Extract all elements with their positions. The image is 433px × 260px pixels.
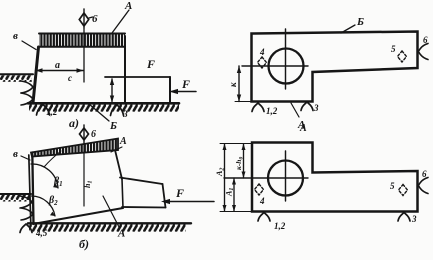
ground (b) xyxy=(28,223,191,231)
step height dimension (a) xyxy=(110,78,114,103)
svg-text:6: 6 xyxy=(422,169,427,179)
centerline (a) xyxy=(83,28,85,82)
svg-text:А1: А1 xyxy=(225,188,236,197)
datum label A bottom (b) xyxy=(103,196,125,240)
block body (a) xyxy=(33,36,125,103)
support point 6 right edge (bottom right) xyxy=(418,169,428,194)
dimension a xyxy=(36,60,84,83)
dimension k-h0 (bottom right) xyxy=(234,144,246,179)
step lug (a) xyxy=(105,77,170,103)
svg-text:β1: β1 xyxy=(53,176,63,188)
clamp point symbol upper left face (a) xyxy=(21,81,33,93)
left wall support (b) xyxy=(0,194,31,202)
support point 3 (a) xyxy=(111,105,129,120)
knurled clamp band (a) xyxy=(39,34,125,47)
force F arrow (a) xyxy=(169,77,196,94)
hole circle (bottom right) xyxy=(268,161,303,196)
svg-text:4,5: 4,5 xyxy=(35,228,48,238)
ground (a) xyxy=(28,103,179,111)
svg-text:5: 5 xyxy=(391,44,396,54)
support point 1,2 (top right) xyxy=(252,103,278,116)
tilted block body (b) xyxy=(29,150,123,224)
svg-text:F: F xyxy=(175,186,184,200)
svg-text:б): б) xyxy=(79,237,89,251)
svg-text:1,2: 1,2 xyxy=(46,107,58,117)
clamp point symbol upper left face (b) xyxy=(20,196,32,208)
svg-text:А2: А2 xyxy=(215,168,226,177)
datum leader Б (a) xyxy=(89,104,117,132)
clamp diamond 4 (bottom right) xyxy=(255,184,266,206)
support point 4,5 (b) xyxy=(20,224,48,238)
clamp diamond 4 (top right) xyxy=(258,47,267,68)
centerline (b) xyxy=(83,145,85,206)
svg-text:Б: Б xyxy=(356,16,364,28)
crosshair (top right) xyxy=(242,29,308,89)
datum label в (b) xyxy=(13,148,30,160)
svg-text:4: 4 xyxy=(259,47,265,57)
clamp diamond 6 (b) xyxy=(80,125,97,143)
datum label Б (top right) xyxy=(341,16,364,33)
svg-text:β2: β2 xyxy=(48,195,58,207)
svg-text:5: 5 xyxy=(390,181,395,191)
svg-text:c: c xyxy=(68,73,72,83)
svg-text:A: A xyxy=(117,228,125,240)
datum label A top (b) xyxy=(111,136,127,152)
svg-text:6: 6 xyxy=(423,35,428,45)
svg-text:1,2: 1,2 xyxy=(274,221,286,231)
plate outline (bottom right) xyxy=(252,143,418,212)
clamp point symbol lower left face (b) xyxy=(21,208,33,220)
svg-text:Б: Б xyxy=(109,120,117,132)
dimension extension lines (bottom right) xyxy=(220,144,252,212)
svg-text:3: 3 xyxy=(122,110,128,120)
clamp point symbol lower left face (a) xyxy=(21,93,33,105)
angle arc beta1 (b) xyxy=(31,164,63,188)
support point 1,2 (bottom right) xyxy=(258,213,286,232)
svg-text:6: 6 xyxy=(91,129,96,140)
svg-text:6: 6 xyxy=(92,13,98,25)
crosshair (bottom right) xyxy=(224,151,308,201)
clamp diamond 5 (top right) xyxy=(391,44,407,62)
svg-text:3: 3 xyxy=(313,103,319,113)
svg-text:к-h0: к-h0 xyxy=(234,157,245,170)
svg-text:в: в xyxy=(13,30,18,42)
support point 1,2 (a) xyxy=(37,105,58,118)
svg-text:4: 4 xyxy=(259,196,265,206)
support point 3 (bottom right) xyxy=(398,213,417,225)
svg-text:1,2: 1,2 xyxy=(266,106,278,116)
dimension A1 (bottom right) xyxy=(225,178,237,212)
svg-text:в: в xyxy=(13,148,18,160)
dimension A2 (bottom right) xyxy=(215,144,227,212)
dimension k (top right) xyxy=(228,66,251,102)
svg-text:а): а) xyxy=(69,116,79,130)
datum label A (top right) xyxy=(291,103,305,131)
step lug (b) xyxy=(120,178,166,208)
plate outline (top right) xyxy=(252,32,418,102)
svg-text:A: A xyxy=(299,123,307,134)
tilt trace curve (b) xyxy=(44,151,61,167)
support point 3 (top right) xyxy=(301,102,319,113)
svg-text:3: 3 xyxy=(411,214,417,224)
svg-text:к: к xyxy=(228,82,238,87)
datum label A (a) xyxy=(112,0,132,33)
clamp diamond 6 (a) xyxy=(79,9,98,28)
svg-text:F: F xyxy=(181,77,190,91)
force F arrow (b) xyxy=(161,186,214,204)
datum label в (a) xyxy=(13,30,36,50)
left wall support (a) xyxy=(0,74,33,82)
svg-text:a: a xyxy=(55,60,60,71)
svg-text:F: F xyxy=(146,57,155,71)
svg-text:A: A xyxy=(119,136,127,147)
knurled clamp band (b) xyxy=(31,139,118,157)
clamp diamond 5 (bottom right) xyxy=(390,181,408,196)
hole circle (top right) xyxy=(269,49,304,84)
angle arc beta2 (b) xyxy=(32,195,59,216)
support point 6 right edge (top right) xyxy=(418,35,428,60)
